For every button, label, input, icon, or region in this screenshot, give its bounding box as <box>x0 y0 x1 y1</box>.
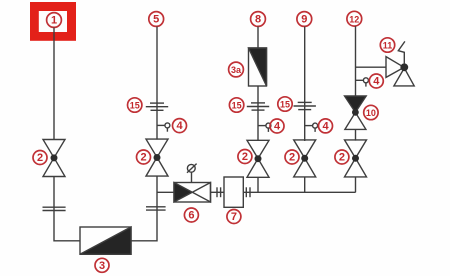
label 10 <box>364 105 378 119</box>
wire filter3 to column2 <box>131 177 157 241</box>
svg-text:2: 2 <box>140 152 146 164</box>
label 2 (column 5) <box>335 150 349 164</box>
svg-text:4: 4 <box>373 76 380 88</box>
node label 5 <box>149 12 164 27</box>
wire branch to valve 11 <box>356 66 387 68</box>
wire column5 to header <box>355 177 357 193</box>
valve 2 (column 3) <box>247 140 269 177</box>
vent valve 4 (column 4) <box>305 123 318 132</box>
vent valve 4 (column 2) <box>157 123 170 132</box>
valve 2 (column 2) <box>146 139 168 176</box>
svg-text:4: 4 <box>322 121 329 133</box>
svg-text:2: 2 <box>37 152 43 164</box>
wire column4 to header <box>304 177 306 193</box>
vent valve 4 (column 5) <box>356 78 369 87</box>
label 4 (column 3) <box>270 119 284 133</box>
label 6 <box>184 208 198 222</box>
svg-text:15: 15 <box>130 100 140 110</box>
label 15 (column 3) <box>229 98 243 112</box>
wire between 10 and valve <box>355 129 357 140</box>
label 2 (column 3) <box>238 150 252 164</box>
label 2 (column 4) <box>285 150 299 164</box>
svg-text:1: 1 <box>51 15 57 27</box>
isolating diaphragm 15 (column 3) <box>247 103 269 110</box>
svg-text:12: 12 <box>349 14 359 24</box>
label 15 (column 4) <box>278 97 292 111</box>
wire branch to regulator 6 <box>157 191 174 193</box>
node label 8 <box>251 12 266 27</box>
pressure regulator 6 <box>174 183 211 203</box>
valve 2 (column 1) <box>43 140 65 177</box>
label 3a <box>229 62 244 77</box>
coupling ticks after 7 <box>246 187 250 197</box>
isolating diaphragm 15 (column 2) <box>146 103 168 110</box>
union (pipe coupling) column 1 <box>43 207 66 210</box>
label 15 (column 2) <box>128 98 142 112</box>
wire column3 middle <box>257 86 259 141</box>
node label 1 <box>47 13 62 28</box>
svg-text:5: 5 <box>153 14 159 26</box>
filter 3a <box>249 48 267 86</box>
svg-text:3: 3 <box>99 260 105 272</box>
filter 3 <box>80 227 131 254</box>
svg-text:2: 2 <box>339 152 345 164</box>
svg-text:15: 15 <box>232 100 242 110</box>
label 4 (column 5) <box>369 74 383 88</box>
wire column1 lower <box>54 177 80 241</box>
svg-text:9: 9 <box>301 14 307 26</box>
coupling ticks between 6 and 7 <box>211 187 225 197</box>
isolating diaphragm 15 (column 4) <box>294 102 316 109</box>
vent valve 4 (column 3) <box>258 123 271 132</box>
svg-text:6: 6 <box>188 210 194 222</box>
main header wire <box>243 191 355 193</box>
label 2 (column 2) <box>137 150 151 164</box>
wire column2 top <box>156 27 158 140</box>
svg-text:3a: 3a <box>231 65 242 75</box>
label 4 (column 4) <box>319 119 333 133</box>
node label 9 <box>297 12 312 27</box>
svg-text:15: 15 <box>280 99 290 109</box>
vessel 7 <box>224 177 243 207</box>
wire column3 top <box>257 27 259 49</box>
label 4 (column 2) <box>173 119 187 133</box>
node label 12 <box>347 11 362 26</box>
valve 2 (column 5) <box>345 140 367 177</box>
label 2 (column 1) <box>33 151 47 165</box>
svg-text:2: 2 <box>289 152 295 164</box>
svg-text:8: 8 <box>255 14 261 26</box>
reducing valve 10 <box>345 96 367 129</box>
wire column1 top <box>53 28 55 140</box>
label 3 <box>95 258 109 272</box>
svg-text:2: 2 <box>242 151 248 163</box>
svg-text:7: 7 <box>231 211 237 223</box>
wire column5 top <box>355 26 357 96</box>
wire column3 to header <box>257 177 259 192</box>
gauge on regulator 6 <box>187 164 197 183</box>
svg-text:11: 11 <box>383 40 393 50</box>
red tag square (sampling point marker) <box>30 2 76 41</box>
union (pipe coupling) column 2 <box>146 207 166 210</box>
svg-text:4: 4 <box>274 121 281 133</box>
label 7 <box>227 210 241 224</box>
label 11 <box>380 38 394 52</box>
valve 2 (column 4) <box>294 140 316 177</box>
svg-text:4: 4 <box>176 120 183 132</box>
angle valve 11 <box>386 41 414 86</box>
wire column4 top <box>304 27 306 142</box>
svg-text:10: 10 <box>366 108 376 118</box>
